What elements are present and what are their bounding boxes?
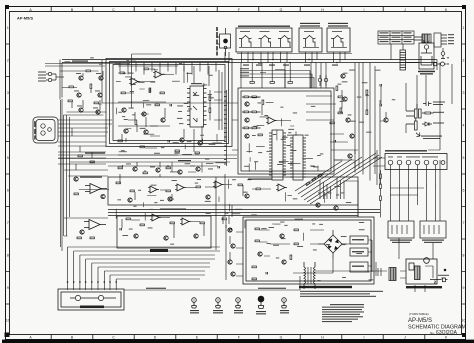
value labels board E: [244, 103, 323, 168]
resistor R29: [196, 186, 200, 188]
node arrow intermediate: [416, 133, 420, 137]
transistor Q40: [156, 168, 160, 172]
value labels C1: [38, 72, 46, 82]
resistor R17: [118, 140, 122, 142]
pcb outline logic board: [238, 88, 334, 174]
transistor Q42: [80, 230, 84, 234]
op-amp U8: [85, 184, 107, 194]
junction dots on bundle: [67, 281, 117, 283]
transistor Q21: [134, 234, 138, 238]
transistor Q4: [142, 112, 146, 116]
transformer T1 hatched block: [422, 34, 431, 43]
capacitor C3: [168, 140, 169, 142]
svg-text:6: 6: [463, 189, 465, 193]
transistor Q5: [124, 129, 128, 133]
value label FLASH: [72, 61, 88, 62]
label SIZE SENSOR 2: [328, 23, 348, 27]
svg-text:No. 63OI2OA: No. 63OI2OA: [430, 330, 458, 336]
svg-text:G: G: [280, 336, 283, 340]
value labels under plugs: [190, 310, 289, 314]
resistor row RA1: [242, 96, 261, 98]
wire: logic horizontals: [237, 54, 352, 121]
value labels ladder: [318, 193, 344, 196]
svg-text:2: 2: [463, 59, 465, 63]
resistor R8: [149, 88, 151, 92]
pcb box: FUSE PCB POSSIBLY: [419, 42, 434, 70]
resistor R45: [78, 155, 82, 157]
value labels switch row: [388, 156, 438, 159]
value labels left cluster: [74, 73, 101, 108]
resistor R64: [270, 82, 274, 84]
photo sensor PS3: [278, 32, 291, 48]
wire: left servo feeds: [226, 225, 243, 280]
op-amp U9: [84, 220, 106, 230]
photo sensor PS5: [331, 32, 347, 48]
value label R48: [433, 112, 444, 113]
pcb box: LOCATION SENSOR PCB P/S POSSIBLY: [236, 28, 292, 52]
resistor R37: [255, 228, 259, 230]
regulator box VR1: [350, 236, 368, 244]
value label speed adj: [80, 177, 272, 210]
transistor Q14: [343, 97, 347, 101]
transistor Q35: [79, 108, 83, 112]
pcb box: POWER PCB: [406, 258, 437, 284]
label SIZE SENSOR 1: [300, 23, 320, 27]
capacitor C12: [218, 166, 219, 168]
transistor Q11: [245, 118, 249, 122]
resistor R51: [290, 255, 292, 259]
value label VR3: [352, 266, 364, 267]
note lines above title: [300, 291, 383, 297]
resistor R27: [130, 190, 134, 192]
wire: left cluster joins: [56, 71, 103, 110]
svg-text:10: 10: [6, 319, 10, 323]
resistor R53: [380, 184, 382, 188]
ic IC1: [187, 86, 207, 127]
svg-text:I: I: [364, 336, 365, 340]
coil L1: [70, 295, 116, 300]
transistor Q44: [101, 194, 105, 198]
transistor Q29: [316, 203, 320, 207]
svg-text:9: 9: [463, 286, 465, 290]
wire: left bus verticals: [61, 99, 63, 251]
wire: horizontals below board D: [58, 155, 237, 166]
resistor R7: [121, 92, 125, 94]
label IC1: [191, 83, 202, 84]
pcb box: SIZE SENSOR P/S POSSIBLY 2: [327, 28, 350, 52]
scan shadow bottom bar: [2, 340, 474, 343]
resistor R9: [160, 92, 164, 94]
transistor Q9: [198, 141, 202, 145]
wire: sensor internal bus: [239, 46, 291, 48]
wire: center cluster joins: [118, 69, 178, 155]
resistor R34: [170, 222, 174, 224]
wire: lower rows joins: [79, 177, 358, 238]
resistor R49: [294, 229, 298, 231]
op-amp U16: [175, 184, 186, 191]
value labels right mid: [338, 70, 396, 133]
resistor R19: [175, 150, 179, 152]
resistor row RA2: [242, 111, 261, 113]
resistor R43: [366, 90, 368, 94]
resistor R22: [262, 100, 264, 104]
resistor R24: [340, 108, 342, 112]
wire: servo internals: [260, 230, 373, 273]
regulator box VR2: [350, 248, 368, 256]
value labels rail names: [240, 68, 249, 76]
transistor Q10: [245, 102, 249, 106]
value labels board D: [118, 73, 214, 165]
wire: bus drops board E: [241, 63, 290, 89]
capacitor C4: [334, 140, 335, 142]
wire: long interconnects: [64, 60, 452, 237]
capacitor C2: [170, 104, 171, 106]
wire: mid vertical risers: [216, 177, 232, 250]
label FUSE PCB POSSIBLY: [418, 71, 435, 75]
svg-text:2: 2: [7, 59, 9, 63]
op-amp U3: [129, 78, 140, 85]
svg-text:8: 8: [7, 254, 9, 258]
pcb box: LED PCB 2: [420, 221, 446, 238]
resistor R26: [116, 182, 120, 184]
resistor R65: [288, 82, 292, 84]
svg-text:AP-M5/S: AP-M5/S: [408, 318, 432, 324]
ic IC4: [290, 135, 306, 180]
connector plug J3: [236, 298, 241, 308]
svg-text:10: 10: [462, 319, 466, 323]
value labels under bus: [243, 65, 338, 66]
value label 4-track adjust: [85, 153, 191, 162]
value labels strip: [126, 164, 213, 170]
label INTERMEDIATE PCB POSSIBLY: [421, 136, 442, 140]
resistor R52: [380, 174, 382, 178]
title block: [408, 312, 467, 336]
svg-text:7: 7: [463, 221, 465, 225]
resistor R5: [120, 72, 124, 74]
wire: IC right joins: [209, 90, 211, 120]
value label D5: [433, 123, 444, 124]
resistor R10: [135, 120, 137, 124]
transistor Q2: [99, 76, 103, 80]
transistor Q13: [341, 74, 345, 78]
resistor R1: [86, 70, 90, 72]
label SEE NOTE: [150, 249, 168, 252]
wire: drops from sensor boxes to bus: [225, 52, 345, 63]
pcb box: MAIN MOTOR: [58, 289, 124, 310]
svg-text:J: J: [404, 8, 406, 12]
wire: left feed lines: [45, 60, 178, 165]
connector plug J5: [282, 298, 287, 308]
ruler letters top: [29, 8, 448, 12]
resistor R23: [336, 86, 338, 90]
op-amp U7: [266, 117, 277, 124]
label LED PCB 2: [422, 240, 444, 243]
value label ac plug: [438, 275, 449, 276]
transistor Q26: [228, 260, 232, 264]
wire: supply line to transformer: [124, 276, 300, 290]
node label vertical: LOCATION SENSOR PCB text: [216, 27, 218, 56]
transistor Q15: [346, 118, 350, 122]
svg-text:1: 1: [7, 26, 9, 30]
value labels servo box: [267, 222, 374, 281]
svg-text:5: 5: [7, 156, 9, 160]
ruler letters bottom: [29, 336, 448, 340]
junction dots right top: [447, 57, 448, 65]
svg-text:G: G: [280, 8, 283, 12]
resistor R57: [77, 237, 81, 239]
resistor R31: [256, 188, 260, 190]
op-amp U17: [213, 181, 224, 188]
svg-text:5: 5: [463, 156, 465, 160]
capacitor C8: [380, 84, 381, 86]
value labels top mid: [65, 57, 184, 64]
resistor R63: [250, 82, 254, 84]
connector CN8 with pin labels: [434, 33, 447, 47]
capacitor C5: [230, 228, 231, 230]
regulator box VR3: [350, 262, 368, 272]
connector bar CN10 hatched: [389, 268, 396, 281]
connector plug J1: [192, 298, 197, 308]
svg-text:J: J: [404, 336, 406, 340]
resistor R46: [90, 161, 94, 163]
pcb box: SERVO STROBE: [243, 217, 374, 284]
connector plug P2: [434, 62, 447, 66]
resistor R48: [422, 112, 434, 114]
connector plug J4: [258, 296, 264, 308]
resistor R50: [294, 243, 298, 245]
svg-text:AP-M5/S: AP-M5/S: [17, 16, 33, 20]
transistor Q45: [178, 170, 182, 174]
transistor Q37: [280, 234, 284, 238]
transistor Q39: [133, 167, 137, 171]
wire: right mid joins: [330, 86, 386, 168]
resistor R3: [90, 84, 92, 88]
transistor Q22: [164, 236, 168, 240]
capacitor C7: [266, 272, 267, 274]
svg-text:7: 7: [7, 221, 9, 225]
resistor R35: [200, 222, 204, 224]
label LED PCB 1: [390, 240, 412, 243]
junction dots main bus: [252, 59, 338, 64]
resistor ladder chain: [306, 174, 324, 186]
wire: staircase fan to motor bundle: [68, 247, 221, 290]
value label supply line: [146, 288, 286, 289]
transistor Q41: [196, 167, 200, 171]
transistor Q32: [348, 154, 352, 158]
value label C11: [433, 102, 445, 106]
notes text block: [322, 304, 364, 322]
node label cartridge: [34, 121, 35, 140]
transistor Q12: [245, 134, 249, 138]
photo sensor PS1: [239, 32, 252, 48]
value label VR1: [352, 239, 364, 240]
op-amp U10: [148, 186, 159, 193]
motor M1: [217, 28, 231, 56]
switch S1 row: [388, 160, 445, 165]
resistor R30: [238, 184, 242, 186]
pcb outline lower analog rows: [108, 177, 380, 248]
label POWER PCB POSSIBLY: [406, 286, 442, 288]
photo sensor PS4: [303, 32, 319, 48]
wire stubs board E: [246, 97, 318, 171]
transistor Q34: [98, 93, 102, 97]
wire: strip joins: [123, 162, 197, 172]
resistor R33: [140, 224, 144, 226]
capacitor C6: [120, 228, 121, 230]
capacitor C9: [380, 104, 381, 106]
svg-text:4: 4: [7, 124, 9, 128]
op-amp U20: [276, 184, 287, 191]
connector CN2 cartridge: [33, 117, 58, 143]
ac plug P1: [430, 269, 447, 284]
wire: right column joins: [380, 170, 382, 217]
resistor R55: [209, 96, 211, 100]
resistor R32: [126, 218, 130, 220]
resistor R4: [94, 102, 98, 104]
wire: ic area joins: [175, 66, 222, 154]
wire: feeds top right: [391, 37, 443, 63]
resistor R56: [209, 108, 211, 112]
wire stubs board D: [116, 70, 226, 173]
op-amp U19: [180, 218, 191, 225]
wire stubs lower rows: [116, 179, 325, 241]
resistor R40: [252, 278, 256, 280]
resistor R61: [143, 172, 147, 174]
svg-text:9: 9: [7, 286, 9, 290]
svg-text:F: F: [238, 8, 240, 12]
pcb outline main analog board: [106, 59, 232, 147]
resistor R62: [166, 167, 170, 169]
transistor Q16: [350, 134, 354, 138]
resistor R42: [338, 112, 342, 114]
resistor R25: [330, 122, 334, 124]
wire: route L node: [102, 54, 238, 108]
resistor R28: [166, 190, 170, 192]
transistor Q17: [128, 198, 132, 202]
fuse F1: [441, 52, 445, 59]
resistor R41: [338, 96, 342, 98]
label KEY BOARD PCB POSSIBLY: [385, 150, 427, 152]
wire: keyboard feeds: [373, 100, 436, 186]
resistor R21: [258, 134, 262, 136]
resistor R60: [118, 167, 122, 169]
label MAIN MOTOR: [80, 306, 104, 309]
label LOCATION SENSOR PCB P/S POSSIBLY: [238, 26, 290, 27]
transistor Q31: [384, 118, 388, 122]
capacitor C1 cluster: [46, 72, 56, 81]
pcb box: KEY BOARD: [385, 154, 447, 170]
op-amp U18: [150, 214, 161, 221]
resistor R38: [255, 240, 259, 242]
transistor Q18: [168, 197, 172, 201]
label SERVO STROBE PCB POSSIBLY: [299, 286, 352, 288]
svg-text:3: 3: [463, 91, 465, 95]
wire: bus drops into board D: [120, 63, 216, 75]
transistor Q20: [245, 194, 249, 198]
pcb box: SIZE SENSOR P/S POSSIBLY 1: [299, 28, 322, 52]
resistor R20: [195, 152, 199, 154]
legend table: [378, 31, 414, 44]
transistor Q6: [144, 130, 148, 134]
svg-text:1: 1: [463, 26, 465, 30]
label AC dark: [433, 286, 439, 288]
diode D5: [422, 122, 432, 126]
capacitor C13 cluster: [318, 75, 328, 86]
diode bridge D1-D4: [318, 230, 347, 259]
capacitor C11: [423, 102, 432, 107]
resistor R16: [155, 104, 159, 106]
transistor Q24: [228, 228, 232, 232]
resistor R36: [222, 218, 226, 220]
value label VR2: [352, 251, 364, 252]
transistor Q8: [180, 138, 184, 142]
wire: ladder drops: [320, 178, 344, 199]
connector comb edge board E: [224, 90, 227, 166]
resistor R44: [366, 110, 368, 114]
transistor Q36: [96, 110, 100, 114]
ic IC3: [269, 130, 286, 180]
transistor Q28: [258, 252, 262, 256]
svg-text:8: 8: [463, 254, 465, 258]
svg-text:(TURNTABLE): (TURNTABLE): [409, 312, 429, 316]
resistor ladder diagonal fan: [295, 153, 382, 204]
transistor Q33: [77, 93, 81, 97]
svg-text:I: I: [364, 8, 365, 12]
resistor R58: [90, 237, 94, 239]
transistor Q23: [194, 234, 198, 238]
resistor R6: [144, 68, 148, 70]
resistor R59: [74, 193, 78, 195]
op-amp U4: [153, 71, 164, 78]
resistor R2: [69, 86, 73, 88]
resistor row RA3: [242, 127, 261, 129]
transistor Q43: [74, 177, 78, 181]
wire: power section joins: [315, 238, 445, 292]
wire: logic board verticals: [258, 63, 375, 181]
transistor Q30: [334, 206, 338, 210]
wire: keyboard to led verticals: [390, 160, 440, 221]
transformer T2: [304, 262, 315, 289]
wire: top horizontal bus pair: [62, 60, 437, 63]
resistor R39: [252, 266, 256, 268]
transistor Q3: [122, 108, 126, 112]
wire: fuse to caps verticals: [406, 75, 426, 133]
photo sensor PS2: [259, 32, 272, 48]
pcb box: LED PCB 1: [388, 221, 414, 238]
resistor R47: [68, 100, 72, 102]
value labels lower rows: [117, 179, 351, 245]
resistor R18: [140, 146, 144, 148]
transistor Q7: [161, 118, 165, 122]
transistor Q25: [231, 244, 235, 248]
svg-text:3: 3: [7, 91, 9, 95]
connector plug J2: [216, 298, 221, 308]
transistor Q19: [206, 195, 210, 199]
transistor Q1: [79, 76, 83, 80]
resistor R54: [380, 196, 382, 200]
transistor Q38: [282, 260, 286, 264]
transistor Q27: [231, 272, 235, 276]
capacitor C10 electrolytic pair: [406, 104, 421, 130]
connector bar CN9 hatched: [400, 50, 406, 70]
svg-text:6: 6: [7, 189, 9, 193]
wire: cartridge leads: [58, 112, 112, 236]
svg-text:4: 4: [463, 124, 465, 128]
svg-text:F: F: [238, 336, 240, 340]
wire: left lower horizontals: [58, 128, 108, 176]
